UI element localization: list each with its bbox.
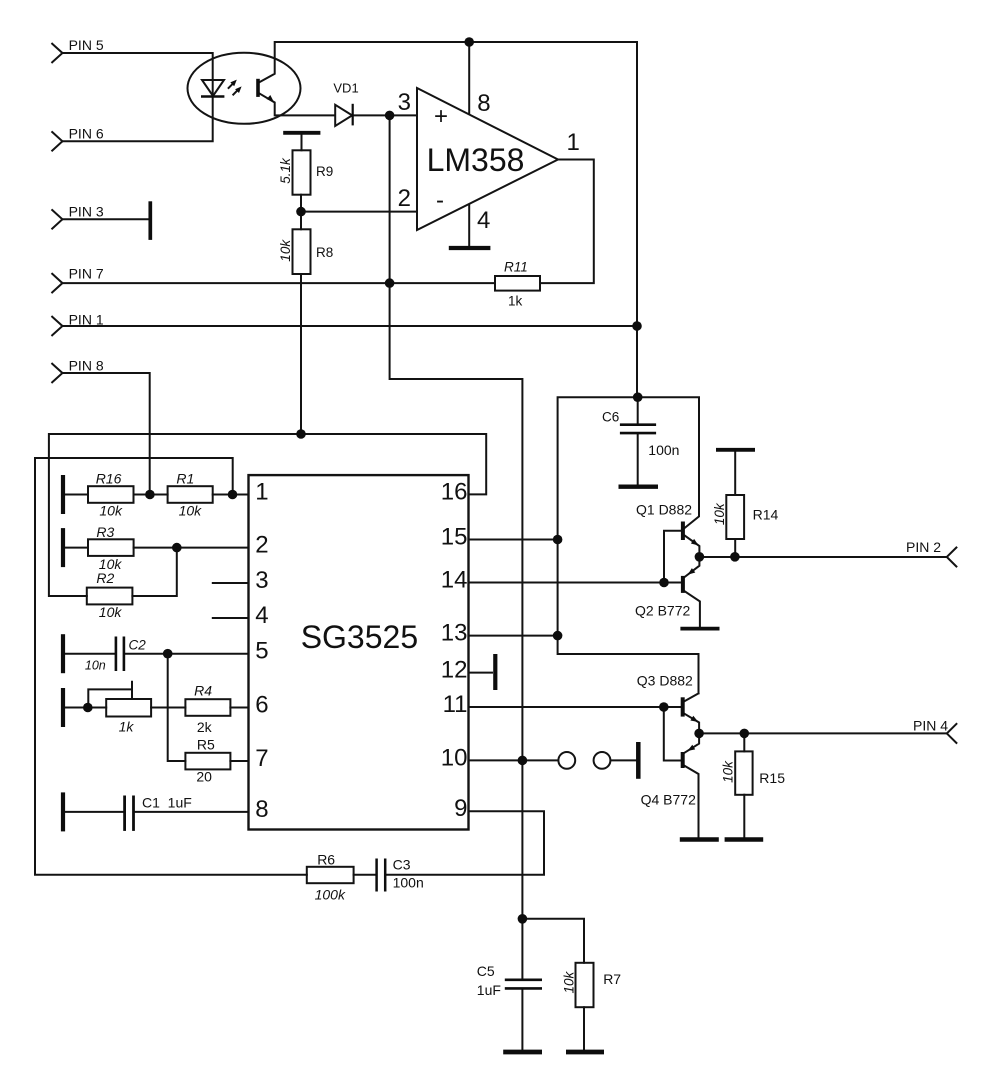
svg-text:100n: 100n bbox=[393, 875, 424, 891]
svg-text:VD1: VD1 bbox=[333, 81, 358, 96]
svg-text:Q3 D882: Q3 D882 bbox=[637, 673, 693, 689]
svg-text:11: 11 bbox=[443, 691, 468, 718]
svg-text:1: 1 bbox=[255, 479, 268, 506]
svg-text:Q2 B772: Q2 B772 bbox=[635, 603, 690, 619]
svg-text:10k: 10k bbox=[712, 502, 727, 525]
svg-text:R2: R2 bbox=[96, 570, 114, 586]
svg-text:10k: 10k bbox=[179, 503, 203, 519]
svg-text:10k: 10k bbox=[278, 239, 293, 262]
svg-text:PIN 2: PIN 2 bbox=[906, 539, 941, 555]
svg-text:13: 13 bbox=[441, 620, 468, 647]
svg-text:10k: 10k bbox=[561, 970, 576, 993]
svg-text:3: 3 bbox=[398, 89, 411, 116]
svg-text:14: 14 bbox=[441, 567, 468, 594]
svg-text:C5: C5 bbox=[477, 963, 495, 979]
svg-text:100n: 100n bbox=[648, 442, 679, 458]
svg-text:1: 1 bbox=[567, 129, 580, 156]
svg-text:R9: R9 bbox=[316, 164, 333, 179]
svg-text:2k: 2k bbox=[197, 719, 213, 735]
svg-text:4: 4 bbox=[477, 207, 490, 234]
svg-text:PIN 7: PIN 7 bbox=[69, 266, 104, 282]
svg-text:R16: R16 bbox=[96, 471, 122, 487]
svg-text:LM358: LM358 bbox=[427, 142, 525, 178]
svg-text:3: 3 bbox=[255, 567, 268, 594]
svg-text:C3: C3 bbox=[393, 857, 411, 873]
svg-text:C1 1uF: C1 1uF bbox=[142, 795, 192, 811]
svg-text:10: 10 bbox=[441, 744, 468, 771]
svg-text:R4: R4 bbox=[194, 683, 212, 699]
svg-text:PIN 5: PIN 5 bbox=[69, 37, 104, 53]
svg-text:5.1k: 5.1k bbox=[278, 157, 293, 184]
svg-text:12: 12 bbox=[441, 657, 468, 684]
svg-text:100k: 100k bbox=[315, 887, 346, 903]
svg-text:2: 2 bbox=[255, 532, 268, 559]
svg-text:R15: R15 bbox=[759, 770, 785, 786]
svg-text:R11: R11 bbox=[504, 260, 528, 275]
svg-text:4: 4 bbox=[255, 602, 268, 629]
svg-text:PIN 1: PIN 1 bbox=[69, 312, 104, 328]
svg-text:R7: R7 bbox=[603, 971, 621, 987]
svg-text:C2: C2 bbox=[129, 638, 147, 653]
svg-text:8: 8 bbox=[255, 796, 268, 823]
svg-text:R14: R14 bbox=[753, 507, 779, 523]
svg-text:7: 7 bbox=[255, 745, 268, 772]
svg-text:PIN 4: PIN 4 bbox=[913, 718, 948, 734]
svg-text:C6: C6 bbox=[602, 410, 619, 425]
svg-text:R8: R8 bbox=[316, 245, 333, 260]
svg-text:8: 8 bbox=[477, 90, 490, 117]
svg-text:R3: R3 bbox=[96, 524, 114, 540]
svg-text:PIN 6: PIN 6 bbox=[69, 126, 104, 142]
svg-text:R5: R5 bbox=[197, 737, 215, 753]
svg-text:R1: R1 bbox=[176, 471, 194, 487]
svg-text:1k: 1k bbox=[119, 719, 135, 735]
svg-text:5: 5 bbox=[255, 638, 268, 665]
svg-text:6: 6 bbox=[255, 692, 268, 719]
svg-text:Q4 B772: Q4 B772 bbox=[641, 792, 696, 808]
svg-text:16: 16 bbox=[441, 478, 468, 505]
svg-text:PIN 3: PIN 3 bbox=[69, 204, 104, 220]
svg-text:1uF: 1uF bbox=[477, 982, 501, 998]
svg-text:Q1 D882: Q1 D882 bbox=[636, 502, 692, 518]
svg-text:10k: 10k bbox=[99, 604, 123, 620]
svg-text:R6: R6 bbox=[317, 852, 335, 868]
svg-text:PIN 8: PIN 8 bbox=[69, 358, 104, 374]
svg-text:10k: 10k bbox=[720, 760, 735, 783]
svg-text:SG3525: SG3525 bbox=[301, 619, 418, 655]
svg-text:10n: 10n bbox=[85, 659, 106, 673]
svg-text:-: - bbox=[436, 187, 444, 214]
svg-text:10k: 10k bbox=[99, 503, 123, 519]
svg-text:20: 20 bbox=[196, 769, 212, 785]
svg-text:+: + bbox=[434, 103, 448, 130]
svg-text:9: 9 bbox=[454, 795, 467, 822]
svg-text:2: 2 bbox=[398, 185, 411, 212]
svg-text:15: 15 bbox=[441, 524, 468, 551]
svg-text:1k: 1k bbox=[508, 294, 523, 309]
